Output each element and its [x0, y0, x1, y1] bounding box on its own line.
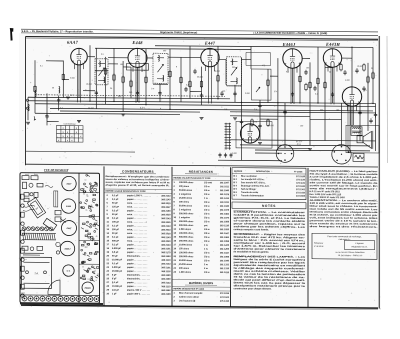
wire page bottom rule: [21, 305, 378, 308]
wire stub a4: [83, 90, 95, 92]
wire rectifier plate lead: [351, 47, 353, 87]
wire IF1 secondary lead: [105, 57, 107, 105]
wire chassis right cell divider: [79, 263, 100, 265]
tube V5 E443H (output): [323, 49, 341, 68]
capacitor C4: [136, 90, 139, 95]
wire out link: [278, 147, 310, 149]
switch table X marks: [58, 127, 82, 143]
transformer MF1 can (tilted): [27, 198, 45, 219]
resistor R9: [180, 76, 182, 84]
tube chassis socket C.V.: [63, 265, 74, 276]
wire lower bus ext2: [230, 115, 310, 118]
wire filter choke lead A: [347, 103, 349, 153]
page fold faint edge: [386, 36, 389, 163]
tube V7 (AF driver, lower row): [240, 124, 259, 143]
capacitor C1: [45, 114, 48, 119]
resistor R2: [62, 73, 64, 81]
wire strip inner line: [55, 191, 57, 207]
wire IF2 primary lead: [145, 49, 147, 105]
wire IF1 primary lead: [95, 48, 97, 109]
chassis misc small parts 2: [22, 192, 61, 283]
socket P.U. pick-up connector: [276, 145, 294, 163]
wire V1 plate lead: [89, 45, 91, 101]
wire osc section riser: [34, 60, 36, 113]
wire interstage enclosure: [236, 121, 272, 148]
wire coupling lead: [217, 46, 219, 99]
wire filter lead: [359, 103, 361, 140]
capacitor C22: [343, 70, 346, 75]
transformer output transformer T2: [351, 127, 362, 136]
resistor R19: [372, 71, 374, 79]
wire speaker enclosure outline: [346, 125, 379, 153]
inductor L1 antenna coil: [28, 104, 29, 111]
wire stub a2: [95, 70, 108, 72]
wire HT plate bus top: [155, 46, 373, 48]
wire V4 grid long lead: [277, 58, 279, 150]
tube chassis socket V5 E443H: [82, 282, 93, 293]
wire lower AF link: [218, 159, 282, 162]
wire stub a1: [63, 78, 69, 80]
capacitor C7: [233, 91, 236, 96]
printer registration mark: [10, 28, 14, 41]
wire output stage link C: [255, 149, 370, 152]
wire page bottom rule shadow: [120, 308, 378, 310]
resistor R8: [169, 70, 171, 78]
switch wafer contact ladder: [225, 123, 232, 150]
capacitor block C-strip: [54, 191, 58, 207]
ground antenna: [26, 122, 30, 124]
speaker LS1 loudspeaker: [357, 131, 373, 149]
wire chassis right cell divider: [79, 239, 100, 241]
capacitor C26: [184, 87, 187, 92]
tube V2 E448 (IF amplifier): [128, 48, 147, 67]
resistor R30: [340, 63, 342, 71]
resistor field coil box HP: [353, 153, 364, 161]
wire ground bus left: [35, 113, 180, 114]
wire title underline: [44, 171, 68, 173]
wire divider col3: [230, 167, 232, 307]
wire if2 base: [153, 83, 168, 85]
resistor R7: [145, 76, 147, 84]
wire schematic left border: [25, 37, 27, 166]
resistor R18: [367, 75, 369, 83]
wire V1 grid riser: [62, 60, 64, 97]
wire V2 grid lead: [122, 61, 124, 111]
resistor R6: [130, 80, 132, 88]
wire divider col4: [307, 168, 309, 307]
resistor R4: [113, 73, 115, 81]
wire page right border: [378, 36, 380, 309]
wire stub a9: [260, 118, 278, 120]
wire V4 plate link: [302, 58, 310, 60]
node antenna terminal: [26, 99, 28, 101]
wire stub a7: [325, 67, 333, 69]
ground T.C. chassis tap: [66, 97, 70, 99]
terminal parts along left edge: [21, 194, 24, 297]
chassis wiring squiggles: [23, 185, 66, 222]
wire stub a3: [108, 63, 118, 65]
wire V2 cathode lead: [137, 67, 139, 101]
capacitor bank lower middle: [218, 153, 232, 158]
transformer IF1 (1st IF transformer): [95, 59, 108, 85]
wire V3 cathode lead: [201, 67, 203, 105]
wire V2 bias lead: [130, 67, 132, 98]
capacitor C3: [95, 90, 98, 95]
ground volume return: [233, 118, 237, 120]
trimmer row on chassis: [22, 227, 53, 231]
potentiometer wiper: [256, 87, 260, 92]
wire lower bus ext: [230, 112, 376, 113]
inductor L2 oscillator coil: [35, 90, 36, 97]
capacitor C29: [258, 123, 261, 128]
wire if3 base: [227, 85, 242, 87]
wire V2 grid link: [108, 57, 128, 59]
svg-text:Imprimerie CHAIX, (Imprimeur): Imprimerie CHAIX, (Imprimeur): [160, 30, 197, 34]
wire detector lead: [225, 60, 227, 85]
resistor R5: [122, 75, 124, 83]
socket V6 rectifier bottom view: [332, 145, 351, 165]
wire rectifier output lead: [341, 103, 343, 144]
wire header top rule: [21, 29, 378, 32]
wire bias network lead: [299, 62, 301, 102]
ground V3 cathode: [200, 118, 204, 120]
wire V7 cathode lead: [259, 100, 261, 140]
junction dots on buses: [89, 45, 373, 112]
wire chassis outline box: [20, 173, 100, 304]
wire screen bus: [95, 48, 251, 49]
capacitor C8: [258, 103, 261, 108]
wire V3 grid link: [168, 56, 201, 58]
resistor R34: [267, 119, 269, 127]
wire AVC bus: [28, 97, 230, 99]
wire filter choke lead B: [349, 103, 351, 153]
wire stub a5: [123, 66, 131, 68]
ground V2 grid return: [121, 114, 125, 116]
wire schematic bottom border: [26, 164, 379, 167]
wire AF coupling long lead: [241, 58, 243, 161]
wire AF link: [242, 59, 252, 61]
capacitor C6: [200, 93, 203, 98]
switch lever symbol: [34, 116, 36, 120]
capacitor electrolytic quarter disc: [48, 280, 60, 295]
tube V1 6AA7 (converter): [71, 48, 88, 65]
AVC dashed line: [35, 95, 225, 96]
ground V7 cathode: [258, 143, 262, 145]
wire coil riser: [58, 95, 60, 110]
wire V3 grid lead: [180, 57, 182, 102]
wire output stage link B: [240, 145, 370, 146]
wire detector load box: [246, 52, 271, 65]
wire V3 plate lead: [189, 46, 191, 99]
wire stub a6: [190, 90, 202, 92]
svg-text:« LA DOCUMENTATION DU RADIO »-: « LA DOCUMENTATION DU RADIO »-PARIS – Ca…: [253, 31, 327, 36]
wire rectifier cathode lead: [351, 106, 353, 126]
dial cord hatch strip: [22, 233, 56, 240]
wire antenna down-lead: [27, 97, 29, 120]
capacitor C5: [158, 91, 161, 96]
capacitor C2: [57, 98, 60, 103]
wire schematic top border: [26, 37, 379, 40]
potentiometer volume control box: [252, 69, 272, 100]
switch commutateur contact table: [57, 125, 84, 142]
capacitor C21: [313, 86, 316, 91]
wire V5 screen lead: [317, 47, 319, 103]
scan speckle noise (decorative): [19, 36, 382, 310]
capacitor C11: [358, 110, 361, 115]
scan tone overlay (decorative): [19, 33, 381, 310]
NOTES heading: [232, 202, 306, 209]
tube V4 E446 (output): [283, 49, 302, 69]
wire speaker field lead: [367, 63, 369, 131]
resistor board small parts top-left: [22, 176, 43, 189]
resistor R11: [200, 80, 202, 88]
chassis bottom shadow bar: [20, 302, 103, 305]
resistor R17: [324, 81, 326, 89]
ground output stage: [308, 148, 312, 150]
capacitor C13: [283, 110, 286, 115]
wire ant link: [28, 96, 35, 98]
resistor R16: [317, 77, 319, 85]
component speckle right cells: [80, 174, 100, 281]
tuning arrows: [99, 64, 238, 77]
wire heater bus A: [35, 104, 376, 107]
resistor R13: [267, 79, 269, 87]
ground V1 cathode: [77, 121, 81, 123]
capacitor C28: [220, 91, 223, 96]
tube V3 E447 (detector/AF): [201, 48, 219, 67]
wire V5 cathode lead: [332, 67, 334, 103]
column BOBINAGES table: [232, 168, 306, 200]
wire filter cap lead: [375, 103, 377, 151]
address box: [312, 233, 377, 259]
wire pad link: [47, 120, 59, 122]
wire chassis inner divider: [78, 173, 80, 303]
transformer T.A. power transformer: [22, 257, 52, 288]
wire pu link: [255, 152, 282, 154]
svg-text:S.E.G. – 15, Boulevard Voltair: S.E.G. – 15, Boulevard Voltaire, 17 – Re…: [22, 29, 94, 34]
capacitor C27: [193, 69, 196, 74]
transformer IF3 (detector transformer): [227, 57, 242, 86]
wire V2 shield base: [127, 63, 149, 70]
wire V4 cathode lead: [292, 68, 294, 103]
capacitor C9: [291, 92, 294, 97]
wire header bottom rule: [21, 33, 378, 36]
wire tone lead: [267, 69, 269, 103]
capacitor C14: [240, 119, 243, 124]
wire IF2 secondary lead: [159, 83, 161, 102]
wire HT bus main: [28, 101, 376, 104]
wire HT down lead: [372, 47, 374, 103]
transformer IF2 (2nd IF transformer): [153, 53, 168, 83]
wire cathode return bus: [60, 111, 200, 112]
wire feedback lead: [324, 63, 326, 141]
wire schematic top border inner: [26, 38, 379, 41]
capacitor C12: [374, 112, 377, 117]
wire chassis right cell divider: [79, 215, 100, 217]
wire divider col1: [103, 166, 105, 306]
wire V7 plate lead: [250, 46, 252, 69]
capacitor C10: [331, 92, 334, 97]
wire V2 plate link: [147, 57, 153, 59]
wire V5 plate link: [342, 57, 352, 59]
resistor R12: [217, 74, 219, 82]
capacitor C24: [362, 86, 365, 91]
resistor R31: [363, 63, 365, 71]
wire phase lead: [309, 62, 311, 145]
transformer MF2 can (tilted): [43, 218, 57, 230]
tube chassis socket V3 E447: [62, 176, 76, 191]
wire stub a8: [310, 118, 342, 120]
wire det link: [219, 58, 227, 60]
terminal strip bottom row: [21, 295, 100, 302]
wire volume lead: [234, 85, 236, 103]
resistor R33: [251, 118, 253, 126]
wire padder riser: [46, 93, 48, 125]
wire tone link: [270, 75, 278, 77]
resistor R3: [104, 67, 106, 75]
resistor R14: [299, 75, 301, 83]
resistor R1: [34, 85, 36, 93]
inductor L3 padder coil: [59, 86, 60, 93]
wire V1 plate link: [88, 56, 95, 58]
wire output stage link A: [230, 140, 376, 141]
tube chassis socket V4 E446J: [60, 241, 74, 256]
tube chassis socket V1 E447: [62, 220, 77, 235]
wire V1 grid link: [46, 60, 63, 62]
capacitor C23: [355, 68, 358, 73]
wire V1 cathode lead: [78, 65, 80, 98]
tube chassis socket V2 E448: [61, 199, 75, 214]
capacitor C20: [304, 70, 307, 75]
node earth terminal: [26, 107, 28, 109]
wire chassis right cell divider: [79, 192, 100, 194]
wire divider col2: [171, 167, 173, 307]
tube pin leads fanning to buses: [75, 64, 357, 125]
resistor R10: [189, 80, 191, 88]
wire V2 screen lead: [113, 48, 115, 101]
resistor R32: [305, 83, 307, 91]
resistor R15: [309, 81, 311, 89]
wire diode load lead: [169, 49, 171, 110]
wire AF output line left section bottom: [26, 150, 136, 153]
wire PU lead: [284, 103, 286, 145]
capacitor C25: [369, 118, 372, 123]
tube V6 rectifier: [342, 87, 361, 107]
wire heater bus B: [50, 108, 373, 111]
scattered component value labels: [40, 49, 373, 160]
